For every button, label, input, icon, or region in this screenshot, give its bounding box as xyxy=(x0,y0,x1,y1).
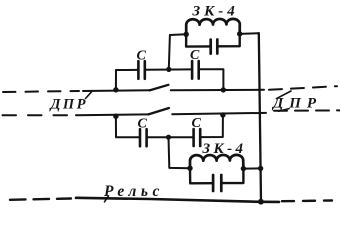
leader tick of right DPR label (upper) xyxy=(277,91,292,99)
node: lower ZK-4 lead / main vertical junction xyxy=(258,166,263,171)
wire: lower ZK-4 block right lead to main vertical xyxy=(243,167,260,169)
capacitor C (upper branch right) plates xyxy=(191,61,194,79)
wire: lower C-C branch left vertical drop xyxy=(116,116,139,137)
wire: lower branch right segment and riser to bottom wire xyxy=(201,115,223,137)
inductor L2 of lower ZK-4 block xyxy=(190,155,243,169)
svg-text:Рельс: Рельс xyxy=(104,183,164,200)
wire: bottom DPR line middle solid segment xyxy=(172,113,266,114)
capacitor C (lower branch right) plates xyxy=(192,129,195,146)
wire: upper branch middle segment xyxy=(146,68,191,70)
wire: bottom DPR line left solid segment xyxy=(76,113,148,116)
node: bottom wire / lower branch left junction xyxy=(113,114,118,119)
capacitor of lower ZK-4 block: left connecting wire xyxy=(190,168,212,183)
wire: top DPR line left solid segment xyxy=(83,89,150,92)
wire: rail solid line xyxy=(76,198,279,202)
svg-text:ЗК-4: ЗК-4 xyxy=(202,141,247,157)
leader tick of left DPR label xyxy=(86,91,93,98)
capacitor of top ZK-4 block: right connecting wire xyxy=(219,34,240,46)
node: main vertical / rail junction xyxy=(258,199,264,205)
node: bottom wire / lower branch right junction xyxy=(220,112,225,117)
capacitor of lower ZK-4 block: plates xyxy=(212,175,215,191)
svg-text:С: С xyxy=(192,116,202,131)
node: upper branch midpoint xyxy=(166,67,171,72)
svg-text:С: С xyxy=(137,49,147,64)
svg-text:С: С xyxy=(190,48,200,63)
switch S1 blade (top wire) xyxy=(150,85,169,91)
svg-text:ЗК-4: ЗК-4 xyxy=(192,4,239,20)
wire: upper C-C branch left vertical riser xyxy=(116,70,137,90)
capacitor of top ZK-4 block: plates xyxy=(209,40,212,54)
node: top ZK-4 block left terminal xyxy=(184,32,189,37)
node: lower ZK-4 block right terminal xyxy=(241,166,246,171)
svg-text:ДПР: ДПР xyxy=(49,97,89,113)
wire: bottom DPR line right dashed section xyxy=(274,109,340,111)
capacitor C (lower branch left) plates xyxy=(139,129,142,146)
svg-text:С: С xyxy=(138,117,148,132)
node: lower ZK-4 block left terminal xyxy=(187,166,192,171)
switch S2 blade (bottom wire) xyxy=(148,108,169,114)
wire: upper branch right segment and right drop to top wire xyxy=(200,69,224,90)
leader tick of rail label xyxy=(105,196,109,202)
wire: lower branch middle segment xyxy=(148,136,193,138)
capacitor of top ZK-4 block: left connecting wire xyxy=(186,34,209,46)
svg-text:ДПР: ДПР xyxy=(271,96,322,112)
wire: rail line right dashed section xyxy=(282,199,332,202)
wire: top ZK-4 block right lead to main vertical xyxy=(240,32,259,35)
wire: top DPR line middle solid segment xyxy=(171,89,264,92)
capacitor of lower ZK-4 block: right connecting wire xyxy=(223,169,244,184)
capacitor C (upper branch left) plates xyxy=(137,61,140,79)
wire: bottom DPR line left dashed section xyxy=(3,114,71,116)
wire: rail line left dashed section xyxy=(10,199,71,200)
leader tick of right DPR label (lower) xyxy=(279,109,290,112)
node: top ZK-4 block right terminal xyxy=(237,31,242,36)
inductor L1 of top ZK-4 block xyxy=(186,19,240,34)
wire: top DPR line right dashed section xyxy=(269,86,337,90)
wire: top DPR line left dashed section xyxy=(3,91,79,92)
wire: main right vertical from top ZK-4 block down to rail xyxy=(259,33,261,202)
wire: riser from upper branch midpoint to top ZK-4 block left lead xyxy=(169,34,186,69)
node: top wire / upper branch junction xyxy=(113,87,118,92)
wire: drop from lower branch midpoint to lower ZK-4 block left lead xyxy=(169,137,191,168)
node: top wire / upper branch right junction xyxy=(221,87,226,92)
node: lower branch midpoint xyxy=(166,135,171,140)
